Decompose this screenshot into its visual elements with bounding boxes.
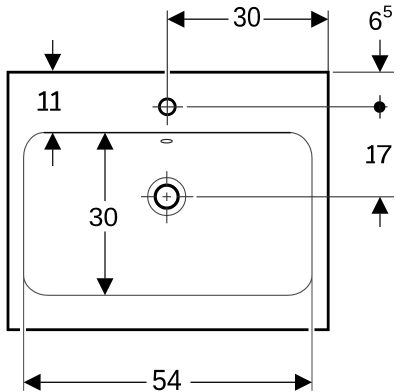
dimension 54: dimension line left segment [41,381,147,383]
dimension 6.5: stem above arrow [379,40,381,56]
basin inner outline [24,133,312,296]
dimension 17: stem below arrow [379,214,381,227]
faucet hole horizontal crosshair [153,106,183,108]
faucet hole circle [159,99,175,115]
vertical dimension 30: lower arrowhead [97,278,114,295]
dimension 11: lower upward arrowhead [44,133,61,150]
dot vertical stem [379,95,381,118]
vertical dimension 30: label [90,208,118,227]
dimension 54: right arrowhead [295,374,312,391]
drain centerline horizontal left segment [141,196,156,198]
basin top edge emphasis [44,132,291,134]
washbasin outer outline [8,72,328,330]
faucet hole vertical crosshair and top extension line [166,11,168,126]
dimension 11: upper downward arrowhead [44,54,61,71]
vertical dimension 30: dimension line lower segment [104,232,106,279]
top dimension 30: right extension line above sink corner [327,11,329,72]
dimension 54: left extension line [23,276,25,391]
top dimension 30: label [234,7,260,27]
drain center tick horizontal [163,196,172,198]
dimension 17: label digit 1 [371,145,374,161]
top dimension 30: right arrowhead [311,11,328,28]
drain centerline horizontal right segment [178,196,194,198]
drain centerline vertical bottom segment [166,208,168,224]
vertical dimension 30: upper arrowhead [97,133,114,150]
dimension 17: upward arrowhead [372,197,389,214]
dimension chain dot terminator [374,101,386,113]
overflow slot [161,139,172,143]
dimension 6.5: superscript 5 [384,6,393,18]
dimension 11: upper stem [52,40,54,54]
dimension 54: dimension line right segment [191,381,296,383]
top dimension 30: left arrowhead [167,11,184,28]
dimension 17: label digit 7 [377,145,391,163]
white gap in bottom edge at right 54 extension line [309,326,315,334]
dimension 11: label first digit 1 [43,91,46,109]
white gap in bottom edge at left 54 extension line [20,326,26,334]
extension line of sink top edge to right [333,71,394,73]
extension line of drain centerline to right [197,196,395,198]
dimension 6.5: downward arrowhead [372,55,389,72]
drain outer circle [148,178,186,216]
extension line of faucet hole centerline to right [187,106,388,108]
top dimension 30: dimension line right segment [264,18,312,20]
white gap in top edge at faucet extension line [165,69,170,77]
dimension 54: label [153,370,181,390]
vertical dimension 30: dimension line upper segment [104,150,106,201]
drain center tick vertical [166,193,168,202]
dimension 11: label second digit 1 [56,91,59,109]
top dimension 30: dimension line left segment [184,18,228,20]
drain centerline vertical top segment [166,171,168,186]
dimension 54: left arrowhead [24,374,41,391]
dimension 6.5: label 6 [370,12,382,31]
dimension 54: right extension line [311,276,313,391]
dimension 11: lower stem [52,150,54,166]
drain inner circle [155,185,178,208]
